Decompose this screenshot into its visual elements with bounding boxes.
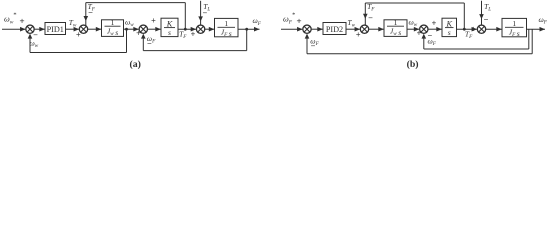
svg-text:(a): (a) [129, 59, 140, 70]
svg-text:−: − [368, 14, 373, 23]
svg-text:s: s [168, 28, 171, 37]
svg-text:s: s [448, 28, 451, 37]
svg-text:+: + [151, 16, 156, 25]
svg-text:+: + [296, 15, 301, 25]
svg-text:+: + [417, 29, 422, 38]
svg-text:PID1: PID1 [47, 25, 64, 34]
svg-text:−: − [88, 8, 93, 17]
svg-text:+: + [76, 30, 81, 39]
svg-text:−: − [311, 42, 316, 51]
svg-text:−: − [484, 15, 489, 24]
svg-text:+: + [432, 19, 437, 28]
svg-text:1: 1 [394, 18, 398, 27]
svg-text:(b): (b) [407, 59, 419, 70]
svg-text:+: + [191, 30, 196, 39]
svg-text:−: − [147, 39, 152, 48]
svg-text:PID2: PID2 [326, 25, 343, 34]
svg-text:+: + [356, 30, 361, 39]
svg-text:+: + [19, 15, 24, 25]
svg-text:−: − [202, 8, 207, 17]
svg-text:1: 1 [512, 19, 516, 28]
svg-text:+: + [136, 29, 141, 38]
svg-text:1: 1 [111, 18, 115, 27]
svg-text:+: + [471, 24, 476, 33]
svg-text:1: 1 [224, 19, 228, 28]
